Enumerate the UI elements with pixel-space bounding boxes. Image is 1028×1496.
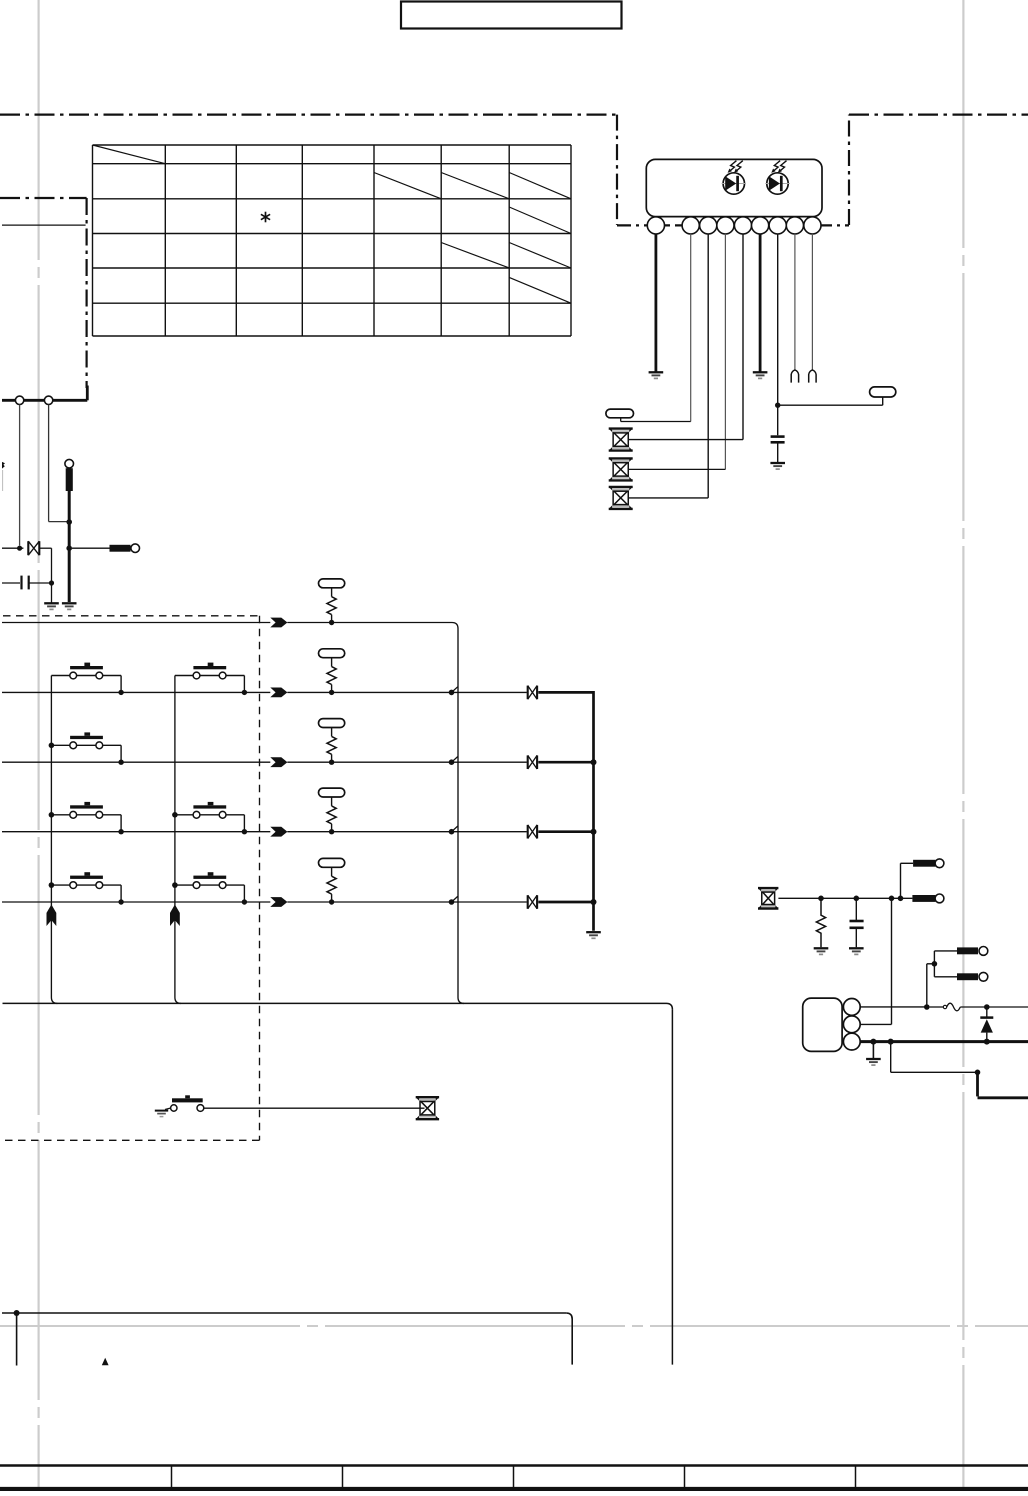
junction R6 top — [818, 896, 824, 902]
fold line vertical right — [962, 0, 964, 1491]
wire pin4 to connector CN2 — [628, 234, 725, 469]
footer title strip — [0, 1466, 1028, 1490]
asterisk mark in table — [261, 212, 270, 223]
wire pin9 to terminal — [811, 234, 813, 370]
wire left edge to diode D1 — [2, 547, 23, 549]
connector pin P1 — [15, 396, 23, 404]
connector CN3 (hourglass) — [609, 487, 633, 509]
row 3 junction + stub to vertical — [449, 757, 458, 765]
wire y225 stub at left edge — [2, 224, 86, 226]
collector bus drop right — [671, 1009, 673, 1364]
cut-off arrow tip near bottom — [102, 1358, 109, 1366]
bus junction row3 — [591, 759, 597, 765]
key scan row line 1 — [2, 623, 458, 629]
key column line 2 — [175, 676, 181, 1004]
board outline dash-dot left drop to sensor — [616, 115, 618, 225]
photo diode D_B inside sensor — [765, 161, 789, 195]
board outline dash-dot top left — [0, 113, 617, 115]
parts/version table — [93, 145, 572, 336]
junction on bottom wire — [14, 1310, 20, 1316]
bus junction branch node — [888, 1039, 894, 1045]
ground left 2 — [62, 603, 77, 609]
junction C3 top — [854, 896, 860, 902]
wire pin7 net with junction — [775, 234, 883, 435]
junction to bar connector W2 — [898, 896, 904, 902]
jumper JW1 oval — [606, 409, 634, 418]
junction fuse-left node — [924, 1004, 930, 1010]
board outline dash-dot right riser — [848, 115, 850, 225]
wire fuse node to edge — [987, 1006, 1028, 1008]
wire pin1 to ground — [655, 234, 658, 372]
ground at S8 — [155, 1111, 168, 1117]
key switch S1 — [51, 663, 123, 696]
terminal lug pin9 — [809, 370, 816, 383]
capacitor C2 — [2, 576, 52, 590]
thick wire row 5 to ground bus — [538, 901, 593, 904]
bus junction row5 — [591, 899, 597, 905]
wire D1 to ground branch — [39, 548, 51, 602]
wire pin8 to terminal — [794, 234, 796, 370]
key scan row line 4 — [2, 831, 527, 833]
ground at pin6 — [753, 372, 768, 378]
capacitor C1 at pin7 — [771, 437, 785, 463]
row 5 arrow — [270, 897, 287, 907]
key switch S7 — [172, 872, 247, 905]
dashed block boundary (key matrix) — [3, 616, 260, 1141]
wire branch to bar connectors W4 W5 — [927, 951, 957, 1007]
branch wire to lower right output — [891, 1042, 1028, 1098]
column collector bus wire — [3, 1003, 673, 1009]
ground left 1 — [44, 603, 59, 609]
connector CN2 (hourglass) — [609, 458, 633, 480]
diode D4 on row 4 — [528, 825, 537, 839]
pull-up resistor R2 row2 — [319, 649, 345, 695]
junction node B — [66, 519, 72, 525]
test point TP1 (pin circle) — [65, 459, 74, 468]
thick wire row 4 to ground bus — [538, 830, 593, 833]
vertical feed line right of matrix — [458, 629, 464, 1004]
wire jack pin2 riser — [860, 898, 891, 1024]
bar connector W3 — [913, 859, 944, 868]
connector CN4 (hourglass) — [416, 1097, 439, 1119]
key scan row line 2 — [2, 691, 527, 693]
wire pin3 to connector CN3 — [628, 234, 708, 498]
thick net wire down to ground — [68, 491, 71, 602]
bus junction to ground — [870, 1039, 876, 1058]
cut mark at left edge — [2, 462, 5, 491]
ground at C3 — [849, 948, 864, 954]
diode ground bus vertical — [592, 691, 595, 931]
switch S8 (reset) — [165, 1095, 204, 1111]
main net wire from CN5 — [778, 897, 912, 899]
drop wire from junction — [16, 1313, 18, 1366]
diode D3 on row 3 — [528, 755, 537, 769]
fold line horizontal bottom — [0, 1325, 1028, 1327]
column 1 continuation arrow — [47, 905, 57, 927]
junction diode node — [984, 1004, 990, 1010]
connector pin P2 — [44, 396, 52, 404]
junction at diode bottom — [984, 1039, 990, 1045]
jumper JW2 oval — [870, 387, 896, 397]
pull-up resistor R3 row3 — [319, 719, 345, 765]
column 2 continuation arrow — [170, 905, 180, 927]
connector CN1 (hourglass) — [609, 429, 633, 451]
ground at pin1 — [649, 372, 664, 378]
key scan row line 5 — [2, 901, 527, 903]
board outline dash-dot notch horizontal — [0, 197, 87, 199]
wire node C to bar connector — [72, 547, 110, 549]
junction node A — [17, 546, 22, 551]
row 2 junction + stub to vertical — [449, 687, 458, 695]
wire up to bar connector W3 — [901, 863, 914, 898]
thick wire with connector pins P1 P2 — [2, 386, 87, 401]
pull-up resistor R1 row1 — [319, 579, 345, 625]
bar connector W5 — [957, 972, 988, 981]
ground at R6 — [814, 948, 829, 954]
capacitor C3 — [850, 898, 864, 947]
row 2 arrow — [270, 688, 287, 698]
thick wire row 2 to ground bus — [538, 691, 593, 694]
key switch S4 — [49, 802, 124, 835]
long bottom wire with junction — [2, 1313, 572, 1365]
wire jack pin1 to fuse node — [860, 1006, 927, 1008]
bar connector W2 — [912, 894, 943, 903]
fold line vertical left — [37, 0, 39, 1491]
resistor R0 (solid bar) — [66, 468, 73, 491]
bar connector W1 — [110, 544, 140, 553]
row 4 arrow — [270, 827, 287, 837]
resistor R6 — [816, 898, 825, 947]
fuse F1 — [930, 1003, 987, 1011]
key switch S5 — [172, 802, 247, 835]
wire pin6 to ground — [759, 234, 762, 372]
key column line 1 — [51, 676, 57, 1004]
diode D5 on row 5 — [528, 895, 537, 909]
row 5 junction + stub to vertical — [449, 896, 458, 904]
junction node C — [66, 545, 72, 551]
photo diode D_A inside sensor — [722, 161, 746, 195]
wire S8 to connector CN4 — [204, 1107, 425, 1109]
connector CN5 (hourglass) — [758, 888, 778, 908]
headphone jack J1 body — [803, 998, 842, 1051]
terminal lug pin8 — [791, 370, 798, 383]
row 3 arrow — [270, 757, 287, 767]
board outline dash-dot notch vertical — [85, 198, 87, 388]
board outline dash-dot through sensor pins — [617, 224, 849, 226]
diode D1 — [28, 541, 39, 555]
row 1 arrow — [270, 618, 287, 628]
ground at C1 — [770, 463, 785, 469]
row 4 junction + stub to vertical — [449, 826, 458, 834]
title box (empty) — [401, 2, 622, 29]
jack J1 pin circles — [843, 999, 860, 1051]
thick ground bus from jack pin3 — [860, 1040, 1028, 1043]
key switch S6 — [49, 872, 124, 905]
diode D5 (to vcc bus) — [980, 1007, 993, 1042]
bar connector W4 — [957, 947, 988, 956]
wire P2 down and over to node B — [49, 405, 68, 522]
key switch S2 — [175, 663, 247, 696]
bus junction row4 — [591, 829, 597, 835]
board outline dash-dot top right — [849, 113, 1028, 115]
ground at jack bus — [866, 1059, 881, 1065]
key scan row line 3 — [2, 761, 527, 763]
key switch S3 — [49, 732, 124, 765]
sensor pin circles 1-9 — [647, 217, 821, 234]
wire pin2 to jumper JW1 — [621, 234, 691, 422]
remote sensor unit U1 body — [646, 159, 822, 216]
junction to jack pin2 — [889, 896, 895, 902]
ground of diode bus — [586, 932, 601, 938]
wire pin5 to connector CN1 — [628, 234, 743, 440]
pull-up resistor R5 row5 — [319, 858, 345, 904]
pull-up resistor R4 row4 — [319, 788, 345, 834]
wire P1 down to node A — [19, 405, 21, 546]
thick wire row 3 to ground bus — [538, 761, 593, 764]
junction node D — [49, 580, 54, 585]
diode D2 on row 2 — [528, 686, 537, 700]
